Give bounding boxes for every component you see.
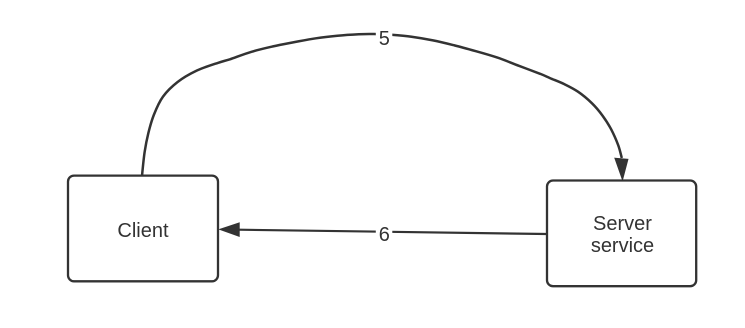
svg-text:5: 5 <box>379 28 390 50</box>
Server service box <box>547 181 696 287</box>
svg-text:service: service <box>591 235 654 257</box>
Client box <box>68 176 218 282</box>
svg-text:Server: Server <box>593 213 652 235</box>
wire curved arrow from Client to Server service <box>142 34 622 176</box>
svg-text:Client: Client <box>117 220 169 242</box>
svg-text:6: 6 <box>379 224 390 246</box>
label 6 <box>376 224 393 243</box>
label 5 <box>376 28 393 47</box>
arrowhead into Server service (points down) <box>615 158 628 180</box>
wire straight arrow from Server service to Client <box>239 230 547 234</box>
arrowhead into Client (points left) <box>220 223 239 236</box>
